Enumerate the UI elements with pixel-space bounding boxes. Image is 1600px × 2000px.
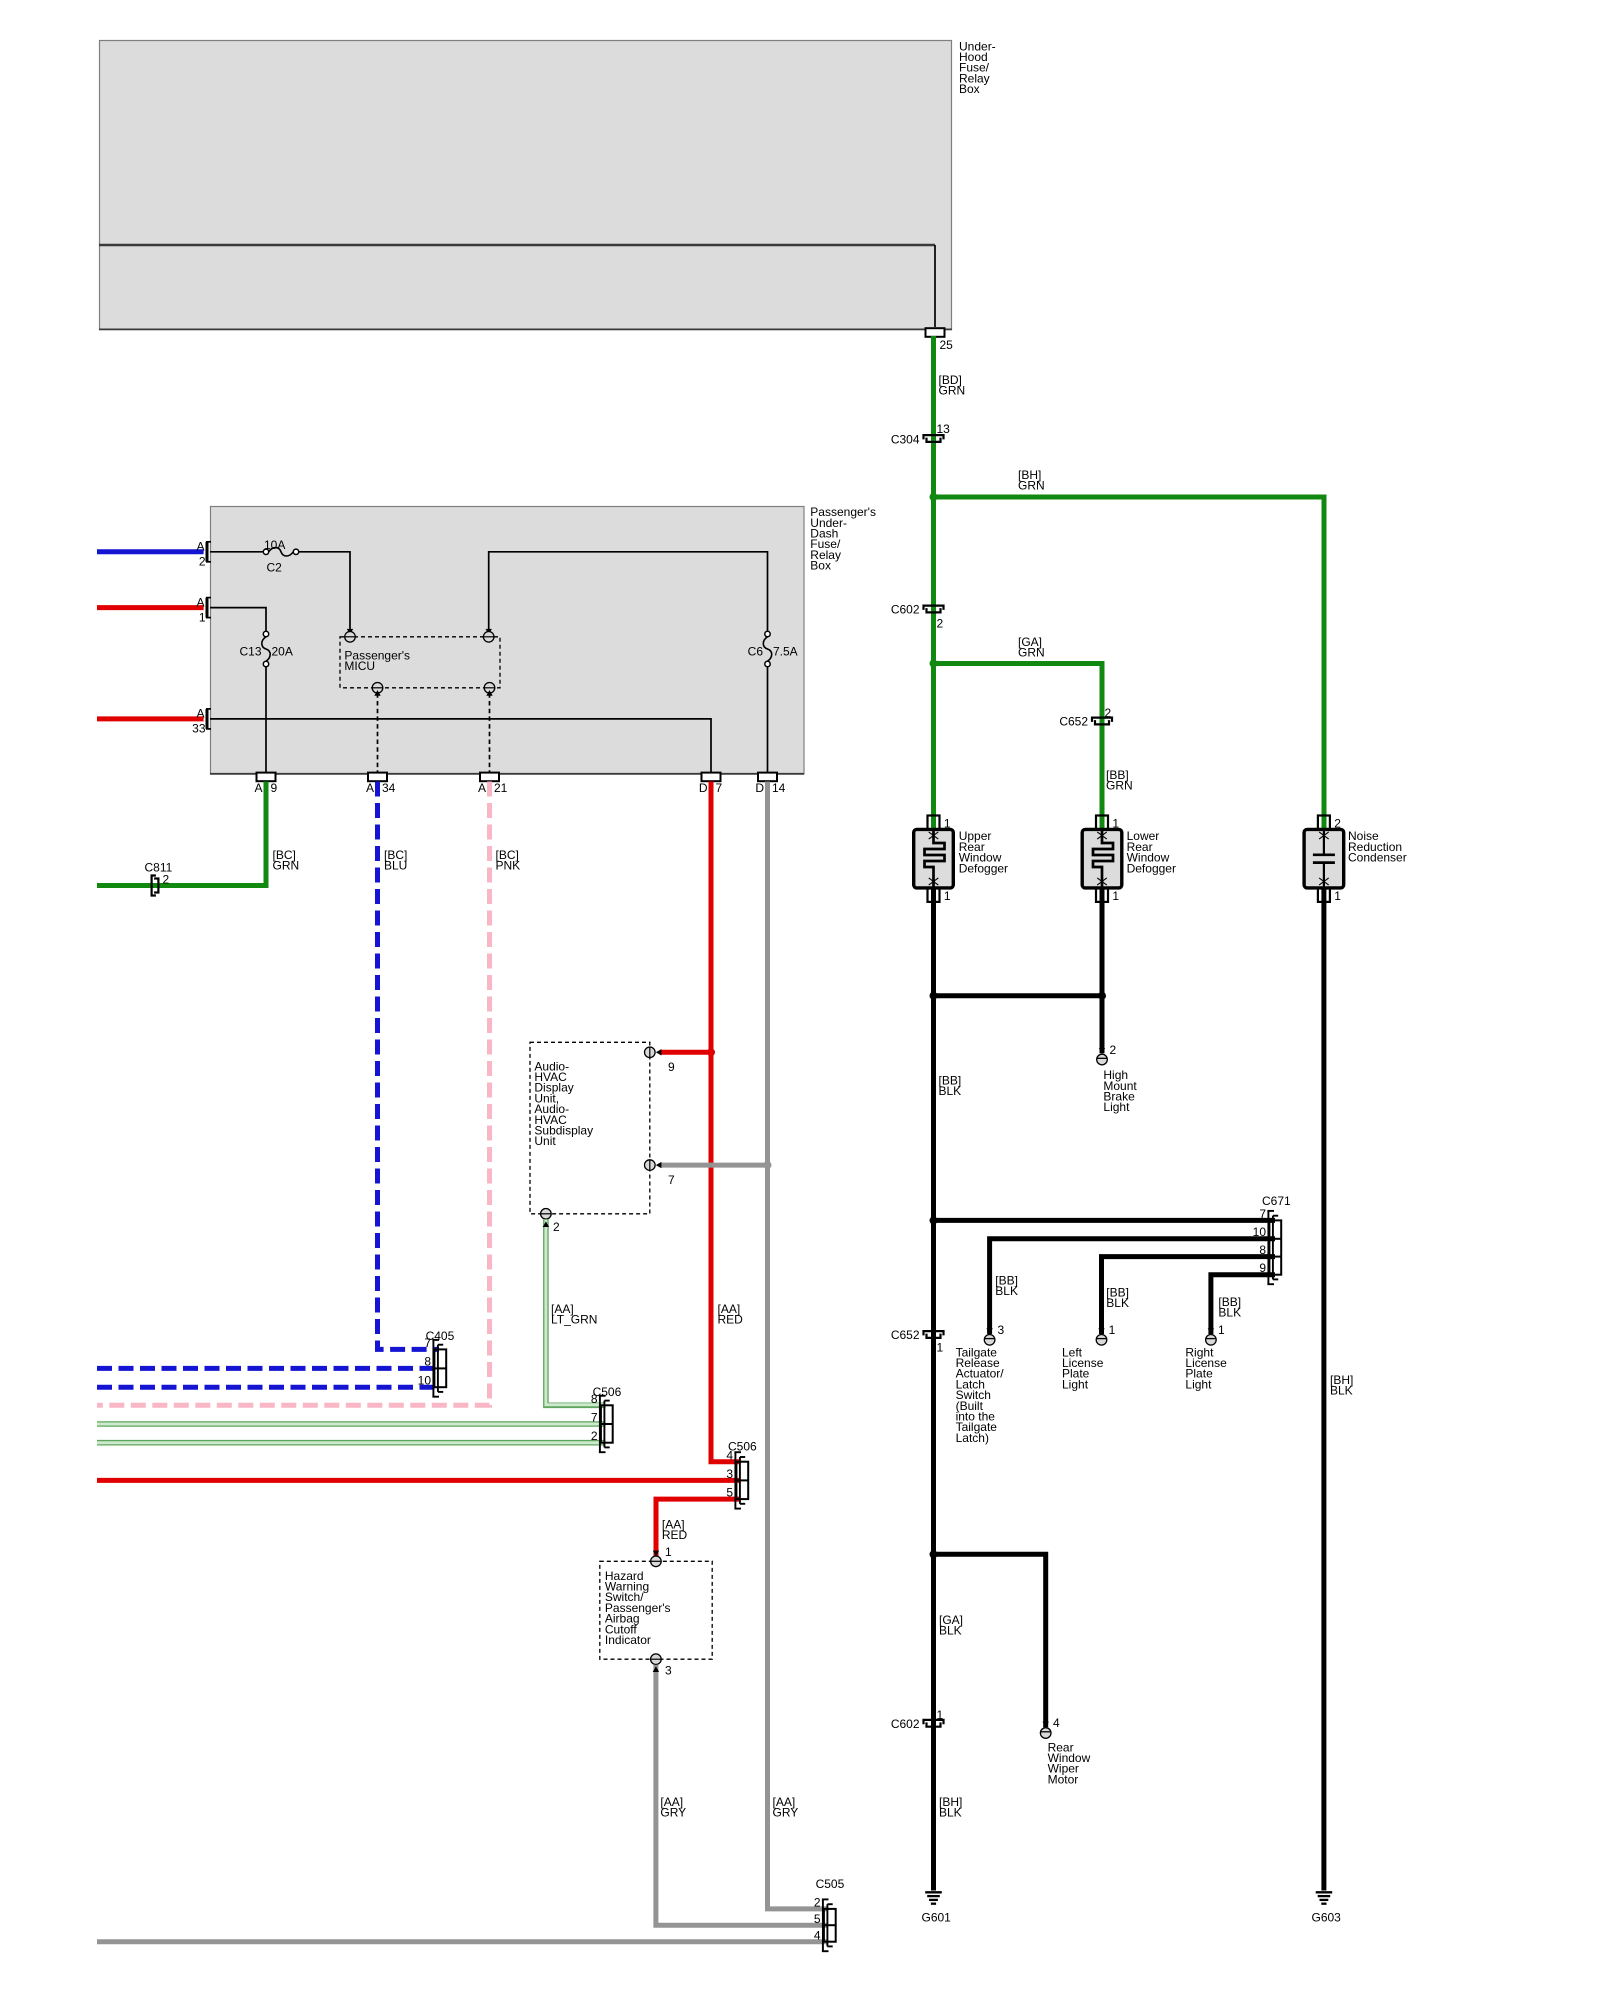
connector A pin 21 xyxy=(480,773,499,782)
wire [AA] RED from D7 to C506 pin 4 xyxy=(711,782,741,1462)
svg-text:1: 1 xyxy=(937,1341,944,1355)
svg-text:2: 2 xyxy=(553,1220,560,1234)
dashed wire MICU to A34 xyxy=(377,693,379,774)
svg-text:4: 4 xyxy=(1053,1716,1060,1730)
svg-text:1: 1 xyxy=(944,817,951,831)
display unit pin 7 xyxy=(645,1160,656,1171)
svg-text:1: 1 xyxy=(665,1545,672,1559)
svg-text:9: 9 xyxy=(668,1060,675,1074)
Passenger's Under-Dash Fuse/Relay Box xyxy=(211,507,805,774)
svg-text:Condenser: Condenser xyxy=(1348,851,1407,865)
connector C671 pins 7 10 8 9 xyxy=(1267,1211,1269,1284)
wire lower defogger down xyxy=(1100,887,1105,1054)
svg-text:LT_GRN: LT_GRN xyxy=(551,1313,597,1327)
connector A pin 34 xyxy=(368,773,387,782)
wire C671 pin 8 to left license plate light xyxy=(1102,1257,1276,1334)
svg-text:GRY: GRY xyxy=(660,1806,686,1820)
svg-text:7: 7 xyxy=(591,1411,598,1425)
connector A pin 9 xyxy=(257,773,276,782)
svg-text:C671: C671 xyxy=(1262,1194,1291,1208)
svg-text:GRN: GRN xyxy=(1018,646,1045,660)
svg-text:1: 1 xyxy=(1112,817,1119,831)
svg-text:GRN: GRN xyxy=(1106,779,1133,793)
svg-text:Light: Light xyxy=(1103,1100,1130,1114)
svg-text:3: 3 xyxy=(665,1664,672,1678)
node junction BD/BH xyxy=(930,493,938,501)
wire junction bar xyxy=(934,993,1103,998)
connector D pin 14 xyxy=(758,773,777,782)
svg-text:7: 7 xyxy=(1259,1207,1266,1221)
tailgate release actuator pin 3 xyxy=(986,1328,992,1334)
node junction to C671 xyxy=(930,1216,938,1224)
svg-text:GRN: GRN xyxy=(273,859,300,873)
MICU pin top-left xyxy=(347,629,353,635)
connector C602 pin 2 xyxy=(924,606,944,610)
svg-text:PNK: PNK xyxy=(496,859,521,873)
wire [AA] GRY input to C505 pin 4 xyxy=(97,1939,829,1944)
node junction to wiper motor xyxy=(930,1550,938,1558)
svg-text:D: D xyxy=(699,781,708,795)
hazard switch pin 1 xyxy=(651,1556,662,1567)
connector A pin 1 xyxy=(206,598,209,618)
svg-text:A: A xyxy=(196,540,204,554)
wire [GA] BLK to rear window wiper motor xyxy=(934,1554,1046,1727)
fuse C13 20A xyxy=(263,631,268,636)
svg-text:C2: C2 xyxy=(267,561,283,575)
wire MICU to fuse C6 xyxy=(489,552,768,631)
svg-text:1: 1 xyxy=(199,610,206,624)
svg-text:13: 13 xyxy=(937,422,951,436)
MICU pin bottom-left xyxy=(372,683,383,694)
connector C811 pin 2 xyxy=(152,876,156,896)
wire RED input to A33 xyxy=(97,716,204,721)
svg-text:Box: Box xyxy=(959,82,980,96)
hazard switch pin 3 xyxy=(651,1654,662,1665)
rear window wiper motor pin 4 xyxy=(1043,1722,1049,1728)
svg-text:2: 2 xyxy=(814,1896,821,1910)
svg-text:2: 2 xyxy=(937,617,944,631)
wire RED branch to display pin 9 xyxy=(661,1050,711,1055)
wire [GA] GRN xyxy=(934,664,1103,832)
svg-text:2: 2 xyxy=(163,873,170,887)
svg-text:Defogger: Defogger xyxy=(1127,861,1176,875)
wire [BD] GRN xyxy=(931,336,936,831)
svg-text:BLK: BLK xyxy=(1218,1306,1241,1320)
svg-text:7: 7 xyxy=(716,781,723,795)
ground G603 xyxy=(1316,1891,1333,1893)
svg-text:7: 7 xyxy=(668,1173,675,1187)
high mount brake light pin 2 xyxy=(1099,1048,1105,1054)
wire A1 to fuse C13 xyxy=(210,608,266,631)
wire C671 pin 10 to tailgate latch switch xyxy=(990,1239,1275,1334)
svg-text:BLK: BLK xyxy=(939,1806,962,1820)
svg-text:1: 1 xyxy=(937,1708,944,1722)
Hazard Warning Switch / Passenger's Airbag Cutoff Indicator xyxy=(600,1561,712,1659)
lower rear window defogger xyxy=(1096,816,1108,830)
svg-text:2: 2 xyxy=(199,555,206,569)
connector D pin 7 xyxy=(702,773,721,782)
wire [BC] BLU input to C405 pin 8 xyxy=(97,1366,439,1371)
svg-text:Unit: Unit xyxy=(534,1134,556,1148)
svg-text:GRN: GRN xyxy=(1018,479,1045,493)
svg-text:4: 4 xyxy=(814,1929,821,1943)
wire GRY branch to display pin 7 xyxy=(661,1163,768,1168)
svg-text:9: 9 xyxy=(271,781,278,795)
svg-text:1: 1 xyxy=(1218,1323,1225,1337)
wire [BH] GRN xyxy=(934,497,1325,831)
svg-text:A: A xyxy=(254,781,262,795)
svg-text:34: 34 xyxy=(382,781,396,795)
svg-text:C602: C602 xyxy=(891,1717,920,1731)
wire [BC] BLU from A34 to C405 xyxy=(378,782,440,1350)
svg-text:MICU: MICU xyxy=(344,659,375,673)
svg-text:10: 10 xyxy=(418,1374,432,1388)
svg-text:BLU: BLU xyxy=(384,859,407,873)
svg-text:1: 1 xyxy=(1109,1323,1116,1337)
svg-text:7: 7 xyxy=(424,1336,431,1350)
svg-text:1: 1 xyxy=(1334,889,1341,903)
svg-text:C505: C505 xyxy=(816,1877,845,1891)
svg-text:A: A xyxy=(478,781,486,795)
svg-text:3: 3 xyxy=(998,1323,1005,1337)
wire [BH] BLK condenser to ground xyxy=(1321,887,1326,1891)
node junction GRY to display unit xyxy=(764,1161,772,1169)
display unit pin 2 xyxy=(541,1209,552,1220)
display unit pin 9 xyxy=(645,1047,656,1058)
noise reduction condenser xyxy=(1318,816,1330,830)
left license plate light pin 1 xyxy=(1098,1328,1104,1334)
fuse C6 7.5A xyxy=(765,631,770,636)
svg-text:Box: Box xyxy=(810,559,831,573)
wire RED C506 pin 5 to hazard switch pin 1 xyxy=(656,1499,741,1556)
wire A33 to D7 xyxy=(210,719,711,774)
svg-text:BLK: BLK xyxy=(1106,1296,1129,1310)
connector A pin 2 xyxy=(206,542,209,562)
connector A pin 33 xyxy=(206,709,209,729)
connector C506 pins 8 7 2 xyxy=(599,1396,601,1452)
wire to C671 pin 7 xyxy=(934,1218,1276,1223)
svg-text:Light: Light xyxy=(1062,1377,1089,1391)
wire [BC] BLU input to C405 pin 10 xyxy=(97,1385,439,1390)
svg-text:Indicator: Indicator xyxy=(605,1633,651,1647)
connector C602 pin 1 xyxy=(924,1720,944,1724)
wire fuse C13 to A9 xyxy=(265,667,267,774)
svg-text:4: 4 xyxy=(726,1449,733,1463)
svg-text:8: 8 xyxy=(424,1355,431,1369)
node junction RED to display unit xyxy=(707,1048,715,1056)
svg-text:Defogger: Defogger xyxy=(959,861,1008,875)
svg-text:33: 33 xyxy=(192,722,206,736)
wire [BC] PNK from A21 to left edge xyxy=(97,782,490,1406)
svg-text:21: 21 xyxy=(494,781,508,795)
svg-text:2: 2 xyxy=(1334,817,1341,831)
svg-text:2: 2 xyxy=(1105,706,1112,720)
connector C652 pin 2 xyxy=(1092,718,1112,722)
connector C505 pins 2 5 4 xyxy=(822,1899,824,1951)
Under-Hood Fuse/Relay Box xyxy=(100,41,952,330)
svg-text:RED: RED xyxy=(718,1313,744,1327)
svg-text:9: 9 xyxy=(1259,1261,1266,1275)
connector C506 pins 4 3 5 xyxy=(734,1452,736,1508)
wire [AA] LT_GRN pin 2 to C506 pin 8 xyxy=(546,1219,606,1405)
svg-text:Latch): Latch) xyxy=(956,1431,989,1445)
svg-text:BLK: BLK xyxy=(939,1084,962,1098)
connector pin 25 xyxy=(926,328,945,337)
svg-text:D: D xyxy=(755,781,764,795)
node junction GA xyxy=(930,660,938,668)
svg-text:3: 3 xyxy=(726,1467,733,1481)
svg-text:Motor: Motor xyxy=(1048,1772,1079,1786)
MICU pin top-right xyxy=(486,629,492,635)
svg-text:2: 2 xyxy=(591,1429,598,1443)
upper rear window defogger xyxy=(928,816,940,830)
svg-text:RED: RED xyxy=(662,1528,688,1542)
svg-text:G603: G603 xyxy=(1312,1911,1342,1925)
right license plate light pin 1 xyxy=(1208,1328,1214,1334)
wire [AA] RED input to C506 pin 3 xyxy=(97,1478,741,1483)
wire LT_GRN input to C506 pin 2 xyxy=(97,1440,606,1446)
svg-text:C652: C652 xyxy=(1059,715,1088,729)
svg-text:G601: G601 xyxy=(922,1911,952,1925)
svg-text:GRN: GRN xyxy=(939,384,966,398)
svg-text:5: 5 xyxy=(814,1912,821,1926)
wire [BB] BLK upper defogger to ground chain xyxy=(931,887,936,1891)
wire inside under-hood box xyxy=(99,244,935,246)
svg-text:Light: Light xyxy=(1185,1377,1212,1391)
svg-text:1: 1 xyxy=(944,889,951,903)
svg-text:10: 10 xyxy=(1253,1225,1267,1239)
dashed wire MICU to A21 xyxy=(489,693,491,774)
connector C652 pin 1 xyxy=(924,1331,944,1335)
connector C405 pins 7 8 10 xyxy=(432,1340,434,1397)
wire BLU input to A2 xyxy=(97,549,204,554)
connector C304 pin 13 xyxy=(924,435,944,439)
wire fuse C2 to MICU xyxy=(299,552,350,630)
svg-text:20A: 20A xyxy=(272,645,293,659)
svg-text:7.5A: 7.5A xyxy=(773,645,798,659)
wire [BC] GRN from A9 to C811 xyxy=(97,782,266,886)
wire A2 to fuse C2 xyxy=(210,551,263,553)
svg-text:BLK: BLK xyxy=(939,1624,962,1638)
svg-text:2: 2 xyxy=(1110,1043,1117,1057)
wire [AA] GRY from D14 to C505 pin 2 xyxy=(768,782,829,1909)
svg-text:GRY: GRY xyxy=(773,1806,799,1820)
svg-text:C602: C602 xyxy=(891,603,920,617)
svg-text:C6: C6 xyxy=(748,645,764,659)
svg-text:25: 25 xyxy=(940,338,954,352)
svg-text:14: 14 xyxy=(772,781,786,795)
wire LT_GRN input to C506 pin 7 xyxy=(97,1421,606,1427)
svg-text:A: A xyxy=(196,707,204,721)
svg-text:C652: C652 xyxy=(891,1328,920,1342)
svg-text:BLK: BLK xyxy=(1330,1384,1353,1398)
svg-text:C304: C304 xyxy=(891,433,920,447)
wire [AA] GRY hazard pin 3 to C505 pin 5 xyxy=(656,1665,828,1926)
svg-text:10A: 10A xyxy=(264,538,285,552)
svg-text:8: 8 xyxy=(591,1392,598,1406)
svg-text:A: A xyxy=(196,595,204,609)
svg-text:1: 1 xyxy=(1112,889,1119,903)
svg-text:5: 5 xyxy=(726,1486,733,1500)
Audio-HVAC Display Unit / Subdisplay Unit xyxy=(530,1042,650,1214)
wire RED input to A1 xyxy=(97,605,204,610)
MICU pin bottom-right xyxy=(484,683,495,694)
svg-text:8: 8 xyxy=(1259,1243,1266,1257)
wire fuse C6 to D14 xyxy=(767,667,769,774)
svg-text:A: A xyxy=(366,781,374,795)
fuse C2 10A xyxy=(263,549,268,554)
wire C671 pin 9 to right license plate light xyxy=(1211,1275,1275,1334)
svg-text:BLK: BLK xyxy=(995,1284,1018,1298)
svg-text:C13: C13 xyxy=(239,645,261,659)
ground G601 xyxy=(925,1891,942,1893)
Passenger's MICU xyxy=(340,637,500,688)
